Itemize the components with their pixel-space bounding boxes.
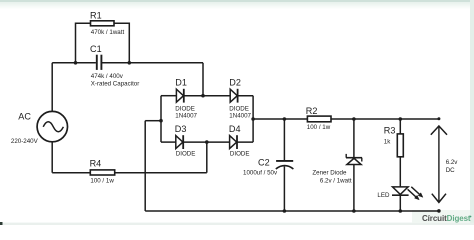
wire AC source top lead	[51, 63, 53, 112]
resistor R3	[397, 134, 403, 157]
svg-text:Zener Diode: Zener Diode	[312, 170, 347, 177]
svg-text:470k / 1watt: 470k / 1watt	[91, 29, 125, 36]
svg-text:D2: D2	[229, 77, 241, 87]
junction node C2 top	[283, 117, 287, 121]
svg-text:DIODE: DIODE	[175, 106, 195, 113]
junction node bridge DC+	[251, 117, 255, 121]
page background bottom edge strip	[0, 223, 474, 225]
svg-text:100 / 1w: 100 / 1w	[307, 124, 331, 131]
svg-text:D4: D4	[229, 124, 241, 134]
junction node LED bottom	[399, 209, 403, 213]
wire R4 right lead	[115, 172, 207, 174]
svg-text:DIODE: DIODE	[229, 106, 249, 113]
svg-text:LED: LED	[377, 192, 390, 199]
output voltage arrow	[431, 126, 447, 202]
diode D2	[230, 89, 237, 103]
svg-text:100 / 1w: 100 / 1w	[90, 178, 114, 185]
wire C2 bottom lead	[283, 167, 285, 212]
wire bottom diode row segment 1	[161, 141, 176, 143]
diode D4	[230, 135, 237, 149]
wire zener top lead	[353, 119, 355, 157]
page background right edge strip	[470, 0, 474, 225]
wire top rail right segment	[102, 62, 203, 64]
wire DC+ rail segment 1	[253, 118, 307, 120]
zener diode ZD1	[346, 154, 362, 165]
resistor R4	[90, 170, 114, 175]
svg-text:D1: D1	[175, 77, 187, 87]
wire R4 left lead	[52, 172, 90, 174]
junction node R1-C1 left	[74, 61, 78, 65]
svg-text:R3: R3	[384, 126, 396, 136]
LED emission arrow 1	[408, 189, 420, 200]
svg-text:DC: DC	[446, 167, 455, 174]
AC source V1	[37, 111, 67, 141]
svg-text:R1: R1	[90, 11, 102, 21]
wire R3 to LED lead	[399, 157, 401, 187]
capacitor C1	[97, 55, 102, 70]
svg-text:6.2v: 6.2v	[446, 159, 459, 166]
wire top diode row segment 2	[184, 95, 231, 97]
wire bridge AC1 stub	[202, 63, 204, 96]
svg-text:6.2v / 1watt: 6.2v / 1watt	[320, 177, 352, 184]
svg-text:1000uf / 50v: 1000uf / 50v	[243, 170, 278, 177]
wire DC- stub	[145, 120, 161, 122]
junction node R3 top	[399, 117, 403, 121]
resistor R1	[91, 21, 115, 26]
junction node R1-C1 right	[128, 61, 132, 65]
wire top diode row segment 3	[237, 95, 253, 97]
LED D5	[392, 187, 409, 195]
logo spark dot	[470, 216, 472, 218]
logo background tint	[412, 210, 470, 223]
svg-text:1N4007: 1N4007	[175, 113, 197, 120]
wire C2 top lead	[283, 119, 285, 160]
diode D1	[176, 89, 183, 103]
svg-text:R4: R4	[90, 158, 102, 168]
resistor R2	[307, 116, 331, 122]
node output negative terminal	[437, 209, 441, 213]
wire AC source bottom lead	[51, 142, 53, 173]
junction node bridge AC1	[201, 94, 205, 98]
svg-text:D3: D3	[175, 124, 187, 134]
page background corner mark	[0, 222, 3, 225]
svg-text:220-240V: 220-240V	[11, 138, 39, 145]
svg-text:474k / 400v: 474k / 400v	[91, 73, 124, 80]
svg-text:R2: R2	[306, 106, 318, 116]
svg-text:1N4007: 1N4007	[229, 113, 251, 120]
svg-text:DIODE: DIODE	[230, 151, 250, 158]
svg-text:AC: AC	[18, 112, 31, 122]
svg-text:C1: C1	[90, 44, 102, 54]
wire top rail left segment	[52, 62, 96, 64]
page background top edge strip	[0, 0, 474, 2]
svg-text:1k: 1k	[384, 138, 391, 145]
wire LED bottom lead	[399, 195, 401, 211]
junction node bridge DC-	[159, 119, 163, 123]
diode D3	[176, 135, 183, 149]
wire top diode row segment 1	[161, 95, 176, 97]
wire bridge AC2 stub	[206, 142, 208, 173]
capacitor C2	[276, 161, 294, 169]
wire R1 branch right	[114, 23, 129, 63]
wire bottom diode row segment 3	[237, 141, 254, 143]
junction node bridge AC2	[205, 140, 209, 144]
wire R3 top lead	[399, 119, 401, 134]
LED emission arrow 2	[411, 187, 423, 198]
node output positive terminal	[437, 117, 440, 120]
svg-text:X-rated Capacitor: X-rated Capacitor	[91, 81, 140, 88]
wire DC+ rail segment 2	[331, 118, 439, 120]
wire zener bottom lead	[353, 164, 355, 211]
svg-text:DIODE: DIODE	[176, 151, 196, 158]
wire DC- vertical	[144, 121, 146, 211]
junction node zener bottom	[352, 209, 356, 213]
junction node zener top	[352, 117, 356, 121]
wire bottom diode row segment 2	[183, 141, 230, 143]
wire bridge left vertical	[160, 96, 162, 142]
wire bottom ground rail	[145, 210, 439, 212]
svg-text:CírcuitDigest: CírcuitDigest	[422, 214, 471, 223]
wire R1 branch left	[76, 23, 91, 63]
svg-text:C2: C2	[258, 157, 270, 167]
junction node C2 bottom	[283, 209, 287, 213]
wire bridge right vertical	[252, 96, 254, 142]
